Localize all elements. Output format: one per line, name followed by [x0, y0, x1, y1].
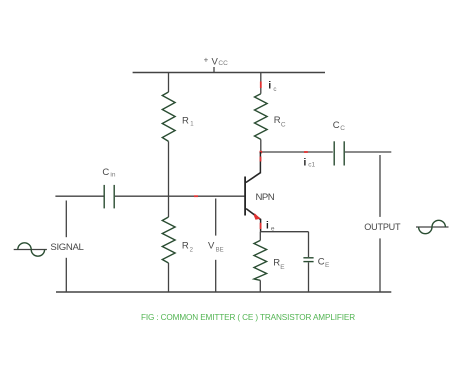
collector diagonal — [246, 173, 261, 183]
svg-text:OUTPUT: OUTPUT — [364, 222, 401, 232]
wire Vbe measure lower — [215, 260, 217, 292]
svg-text:c: c — [273, 86, 276, 93]
svg-text:BE: BE — [216, 247, 224, 253]
base bar — [244, 177, 246, 216]
wire R2 bottom lead — [168, 263, 170, 292]
collector vertical — [259, 152, 261, 173]
svg-text:NPN: NPN — [256, 192, 275, 203]
wire signal branch upper — [65, 201, 67, 238]
svg-text:+: + — [204, 55, 209, 64]
wire Cc to output — [345, 151, 391, 153]
svg-text:i: i — [268, 81, 271, 92]
svg-text:CC: CC — [218, 60, 228, 67]
wire signal branch lower — [65, 258, 67, 292]
resistor Rc — [255, 94, 268, 140]
wire R1 bottom lead — [168, 141, 170, 196]
emitter diagonal — [246, 209, 260, 220]
svg-text:C: C — [333, 120, 340, 131]
label R1 — [182, 115, 194, 127]
label ic1 — [304, 157, 316, 168]
resistor R2 — [162, 217, 175, 263]
wire emitter node line — [261, 231, 309, 233]
wire output branch lower — [379, 238, 381, 291]
label Re — [273, 258, 285, 271]
junction collector node (red) — [260, 151, 263, 154]
label Ce — [318, 256, 330, 269]
wire Ce bottom lead — [308, 262, 310, 292]
capacitor Ce — [303, 258, 313, 262]
label R2 — [182, 240, 194, 253]
wire input left lead — [55, 195, 103, 197]
label Cin — [102, 167, 115, 179]
current arrow ic (red) — [260, 82, 262, 89]
capacitor Cin — [104, 185, 114, 209]
svg-text:i: i — [266, 220, 269, 231]
wire R1 top lead — [168, 73, 170, 93]
svg-text:C: C — [102, 167, 109, 178]
transistor Q1 NPN — [244, 152, 260, 232]
svg-text:SIGNAL: SIGNAL — [50, 242, 84, 253]
current arrow emitter (red arrowhead) — [254, 213, 261, 220]
output sine symbol right — [416, 220, 449, 233]
wire output branch upper — [379, 155, 381, 217]
node Vcc tick — [213, 67, 215, 73]
emitter vertical — [260, 219, 262, 232]
svg-text:C: C — [318, 256, 325, 267]
svg-text:R: R — [274, 115, 281, 126]
svg-text:FIG : COMMON EMITTER ( CE ) TR: FIG : COMMON EMITTER ( CE ) TRANSISTOR A… — [141, 313, 355, 322]
svg-text:i: i — [304, 157, 307, 168]
svg-text:E: E — [280, 264, 285, 271]
label Cc — [333, 120, 346, 132]
label ic — [268, 81, 276, 93]
svg-text:R: R — [182, 115, 189, 126]
svg-text:C: C — [281, 122, 286, 129]
svg-text:E: E — [325, 262, 330, 269]
wire bottom rail — [56, 291, 391, 293]
current arrow ie (red dash) — [260, 223, 262, 229]
label ie — [266, 220, 275, 232]
resistor Re — [254, 240, 267, 280]
label VBE — [208, 240, 224, 253]
source sine symbol left — [14, 243, 47, 256]
current arrow ic1 (red dash) — [304, 151, 308, 153]
svg-text:C: C — [340, 125, 345, 132]
wire Rc bottom lead — [260, 139, 262, 152]
wire collector node to Cc — [261, 151, 333, 153]
wire base line — [115, 195, 245, 197]
wire Rc top lead — [260, 73, 262, 94]
net label +Vcc — [204, 55, 228, 67]
current arrow collector (red dash below node) — [260, 157, 262, 162]
svg-text:V: V — [208, 240, 215, 251]
capacitor Cc — [334, 141, 344, 165]
svg-text:R: R — [273, 258, 280, 269]
svg-text:c1: c1 — [308, 162, 315, 169]
svg-text:in: in — [110, 172, 115, 179]
wire Vbe measure upper — [215, 199, 217, 236]
svg-text:R: R — [182, 240, 189, 251]
wire R2 top lead — [168, 196, 170, 217]
wire Re top lead — [259, 232, 261, 241]
wire Ce top lead — [308, 232, 310, 257]
label Rc — [274, 115, 286, 129]
resistor R1 — [162, 92, 175, 141]
current mark base (red dash) — [194, 195, 198, 197]
wire top supply rail — [133, 72, 325, 74]
wire Re bottom lead — [259, 280, 261, 292]
